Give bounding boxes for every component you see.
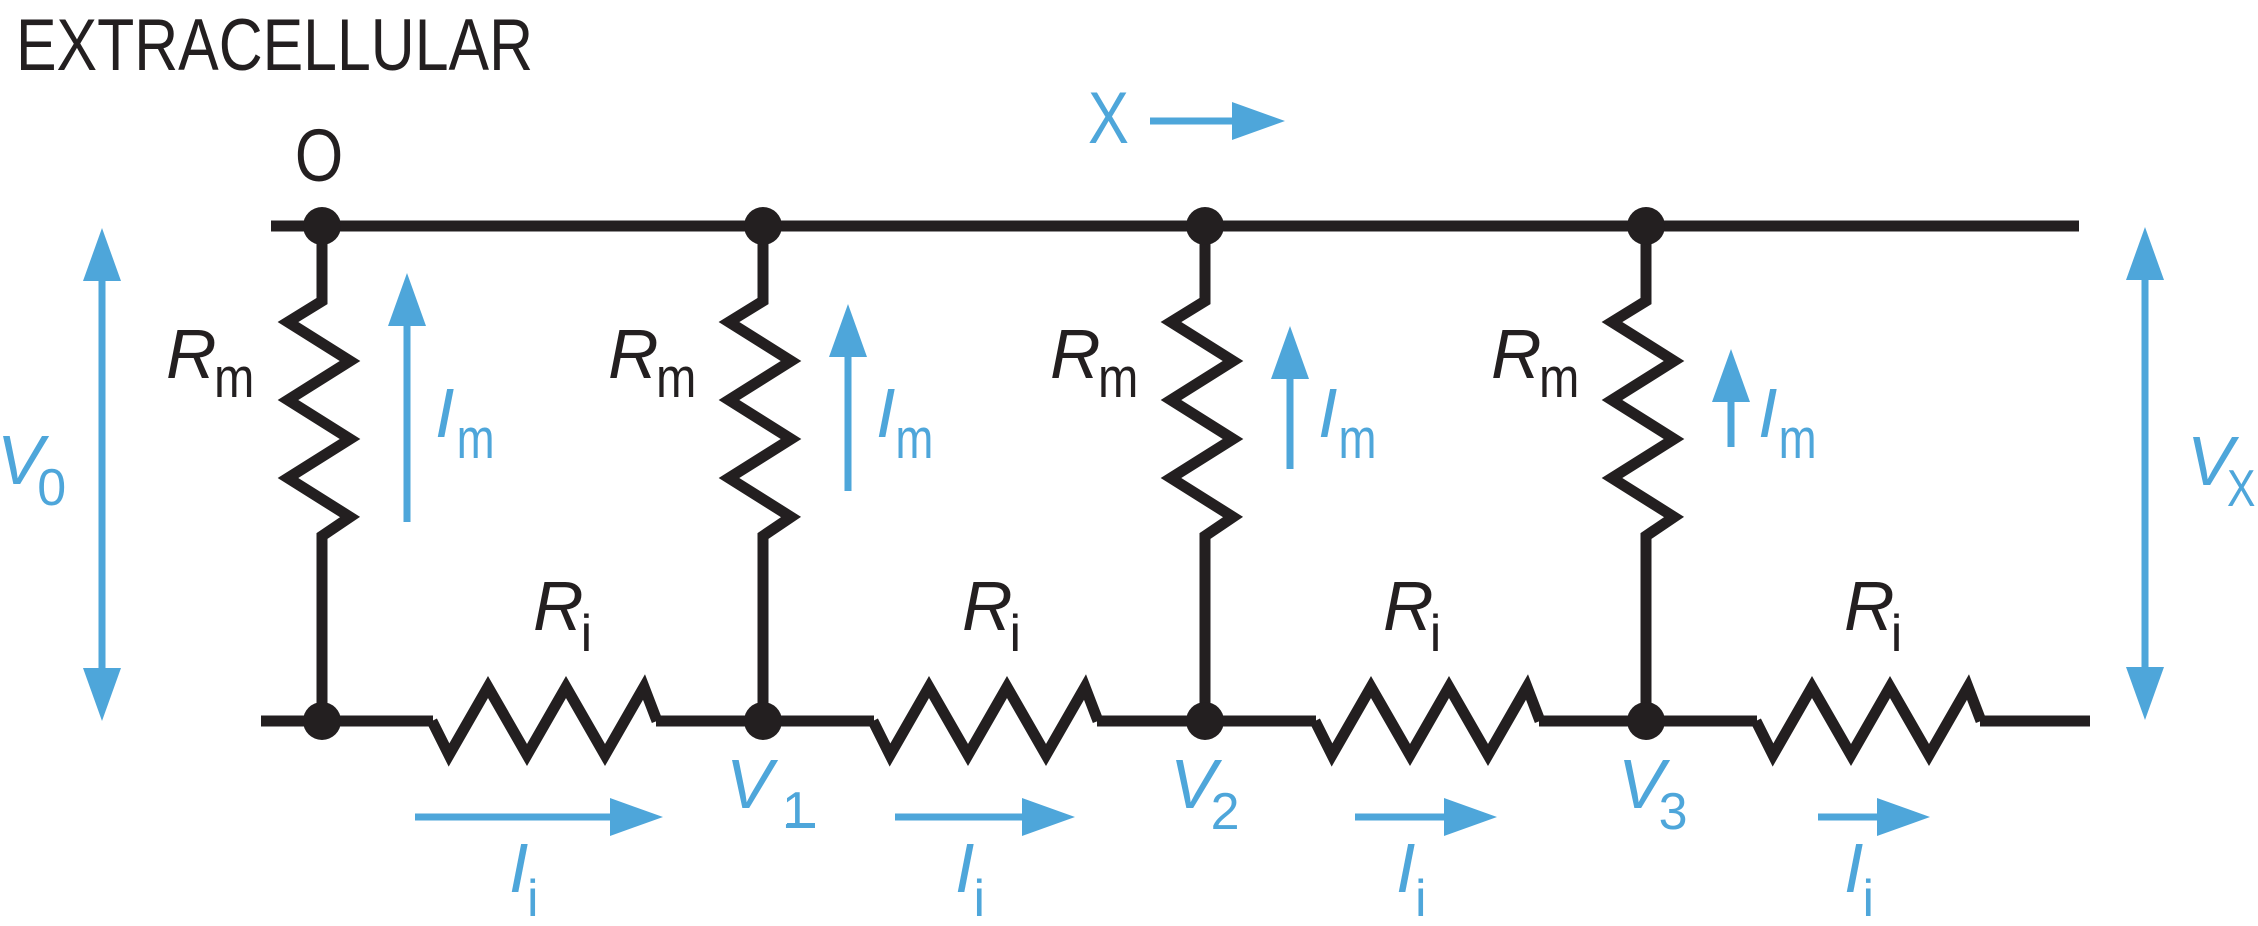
svg-text:3: 3: [1659, 783, 1688, 841]
svg-text:i: i: [1430, 605, 1442, 663]
svg-text:R: R: [533, 567, 584, 645]
wire: bottom rail between R_i 1 and node V1: [656, 716, 874, 727]
svg-text:EXTRACELLULAR: EXTRACELLULAR: [16, 5, 533, 86]
svg-text:I: I: [1396, 829, 1415, 907]
resistor R_m 3: [1171, 226, 1233, 721]
svg-text:m: m: [214, 346, 254, 410]
svg-text:R: R: [1383, 567, 1434, 645]
svg-text:R: R: [608, 315, 659, 393]
svg-text:R: R: [166, 315, 217, 393]
wire: bottom rail between R_i 3 and node V3: [1539, 716, 1757, 727]
svg-text:I: I: [1844, 829, 1863, 907]
svg-text:1: 1: [782, 782, 811, 840]
svg-text:m: m: [457, 406, 495, 470]
svg-text:i: i: [974, 870, 986, 926]
svg-text:R: R: [1491, 315, 1542, 393]
resistor R_m 2: [729, 226, 791, 721]
resistor R_m 4: [1612, 226, 1674, 721]
wire: bottom rail left stub: [261, 716, 433, 727]
internal current arrow I_i 1: [415, 814, 615, 821]
resistor R_i 1: [432, 687, 657, 755]
svg-text:O: O: [295, 115, 343, 197]
svg-text:I: I: [1318, 374, 1337, 452]
svg-text:i: i: [1891, 605, 1903, 663]
svg-text:V: V: [726, 745, 779, 823]
junction dots on bottom rail: [303, 702, 341, 740]
svg-text:m: m: [1539, 346, 1579, 410]
internal current arrow I_i 2: [895, 814, 1027, 821]
svg-text:X: X: [2227, 460, 2255, 518]
serif foot of subscript 1: [787, 823, 815, 828]
svg-text:i: i: [581, 605, 593, 663]
membrane current arrow I_m 3: [1287, 374, 1294, 469]
resistor R_i 4: [1756, 687, 1981, 755]
svg-text:R: R: [1050, 315, 1101, 393]
svg-text:I: I: [509, 829, 528, 907]
resistor R_i 3: [1315, 687, 1540, 755]
junction dots on top rail: [303, 207, 341, 245]
svg-text:m: m: [1098, 346, 1138, 410]
x axis arrow: [1150, 118, 1237, 125]
membrane current arrow I_m 4: [1728, 397, 1735, 447]
wire: bottom rail right stub: [1980, 716, 2090, 727]
svg-text:0: 0: [37, 459, 66, 517]
wire: bottom rail between R_i 2 and node V2: [1097, 716, 1316, 727]
svg-text:R: R: [1844, 567, 1895, 645]
svg-text:m: m: [656, 346, 696, 410]
svg-text:i: i: [527, 870, 539, 926]
voltage span arrow V_x: [2142, 275, 2149, 672]
svg-text:I: I: [876, 374, 895, 452]
resistor R_i 2: [873, 687, 1098, 755]
membrane current arrow I_m 1: [404, 321, 411, 522]
svg-text:I: I: [1758, 374, 1777, 452]
internal current arrow I_i 4: [1818, 814, 1882, 821]
resistor R_m 1: [288, 226, 350, 721]
voltage span arrow V_0: [99, 276, 106, 673]
svg-text:2: 2: [1211, 783, 1240, 841]
svg-text:I: I: [435, 374, 454, 452]
svg-text:i: i: [1863, 870, 1875, 926]
svg-text:i: i: [1010, 605, 1022, 663]
wire: top extracellular rail: [271, 221, 2079, 232]
internal current arrow I_i 3: [1355, 814, 1449, 821]
svg-text:i: i: [1415, 870, 1427, 926]
svg-text:m: m: [1779, 406, 1817, 470]
svg-text:X: X: [1088, 78, 1129, 159]
svg-text:m: m: [895, 406, 933, 470]
svg-text:R: R: [962, 567, 1013, 645]
membrane current arrow I_m 2: [845, 352, 852, 491]
svg-text:I: I: [955, 829, 974, 907]
svg-text:m: m: [1339, 406, 1377, 470]
